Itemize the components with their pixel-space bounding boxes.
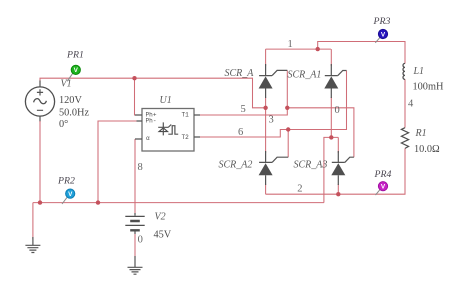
wire SCR_A3 cathode and anode column [337,137,339,194]
ground left [25,237,40,253]
wire net5 T1 to gates [199,108,354,157]
probe PR1 [67,65,80,81]
svg-text:0°: 0° [59,119,68,130]
wire SCR_A cathode and anode column [265,49,267,108]
svg-text:R1: R1 [415,128,427,139]
source V1 [25,81,54,117]
inductor L1 [403,63,405,79]
svg-text:V: V [74,67,79,74]
svg-text:SCR_A3: SCR_A3 [294,160,328,171]
svg-text:45V: 45V [154,230,172,241]
wire net3 Ph+ drop [135,78,138,115]
svg-text:PR4: PR4 [374,169,392,180]
svg-text:50.0Hz: 50.0Hz [59,107,89,118]
junction node 3 at Ph+ tap [132,76,136,80]
battery V2 [125,213,144,234]
wire net8 alpha to V2 [134,139,136,214]
wire net3 top rail from V1 to bridge [40,78,266,108]
svg-text:0: 0 [335,105,340,116]
wire net1 top output rail [266,48,331,50]
svg-text:V2: V2 [155,212,166,223]
svg-text:T1: T1 [182,112,190,119]
svg-text:6: 6 [238,127,243,138]
svg-text:0: 0 [138,235,143,246]
svg-text:PR1: PR1 [66,50,84,61]
thyristor SCR_A1 [324,64,346,98]
ground bottom [128,256,143,274]
svg-text:10.0Ω: 10.0Ω [414,144,440,155]
wire net6 T2 to gates [199,71,347,138]
junction node 0 bridge right [329,135,333,139]
svg-text:α: α [146,135,150,142]
op U1 trigger block [135,109,200,152]
wire net1 to load L1 [318,42,405,64]
junction rail at V1 [38,200,42,204]
probe PR4 [376,182,388,195]
wire SCR_A1 cathode and anode column [330,49,332,137]
svg-text:Ph-: Ph- [146,117,157,124]
probe PR3 [375,29,387,42]
wire R1 bottom to net2 rail [266,148,405,194]
junction node 5 [285,106,289,110]
wire left ground drop [32,203,34,239]
wire net5 riser to SCR_A gate [286,70,288,107]
probe PR2 [62,189,75,204]
svg-text:V: V [68,191,73,198]
svg-text:SCR_A1: SCR_A1 [288,70,322,81]
svg-text:PR3: PR3 [373,16,391,27]
svg-text:V: V [381,184,386,191]
resistor R1 [401,128,408,149]
svg-text:U1: U1 [160,95,172,106]
wire SCR_A2 cathode and anode column [265,108,267,194]
thyristor SCR_A2 [259,151,289,185]
svg-text:1: 1 [288,39,293,50]
wire V2 bottom to ground [134,230,136,258]
svg-text:120V: 120V [59,95,82,106]
svg-text:100mH: 100mH [413,82,444,93]
svg-text:SCR_A: SCR_A [225,68,255,79]
svg-text:L1: L1 [413,66,425,77]
wire bottom rail neutral [33,202,324,204]
svg-text:5: 5 [241,104,246,115]
wire net6 riser SCR_A2 gate [287,130,289,158]
svg-text:2: 2 [297,183,302,194]
svg-text:V: V [381,31,386,38]
svg-text:T2: T2 [182,134,190,141]
svg-text:4: 4 [408,99,414,110]
wire net2 Ph- to bottom rail [98,121,137,203]
wire L1 to R1 node4 [404,79,406,128]
wire V1 bottom [39,116,41,122]
svg-text:PR2: PR2 [57,176,75,187]
junction node 3 bridge left [263,106,267,110]
junction rail at Ph- [96,200,100,204]
junction node 6 [286,127,290,131]
junction node 2 at SCR_A3 [336,192,340,196]
wire net0 riser to bridge midpoint [324,137,338,202]
svg-text:V1: V1 [61,79,72,90]
thyristor SCR_A [259,64,288,98]
thyristor SCR_A3 [331,151,354,185]
junction node 1 [316,47,320,51]
svg-text:3: 3 [269,115,274,126]
svg-text:SCR_A2: SCR_A2 [219,160,253,171]
svg-text:8: 8 [138,162,143,173]
